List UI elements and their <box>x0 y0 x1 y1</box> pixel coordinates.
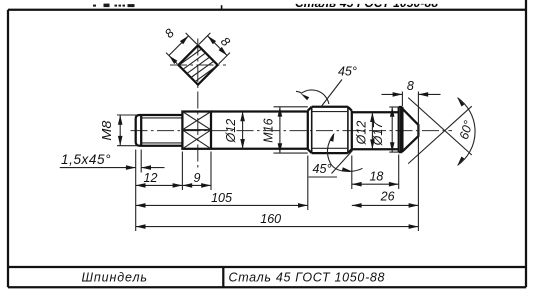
svg-text:Ø12: Ø12 <box>224 119 238 144</box>
detail square hatching <box>179 49 202 65</box>
svg-text:Ø12: Ø12 <box>355 121 369 146</box>
svg-text:45°: 45° <box>338 65 357 79</box>
svg-text:12: 12 <box>144 171 158 185</box>
collar diameter-17 outline <box>398 107 400 152</box>
cone construction lines to apex <box>408 98 472 155</box>
detail view square 8x8 (rotated 45deg) <box>178 45 217 84</box>
svg-text:М8: М8 <box>100 121 114 141</box>
dimension 60deg (cone angle) <box>458 98 476 166</box>
svg-text:Шпиндель: Шпиндель <box>82 271 148 285</box>
dimension 12 (thread length) <box>136 184 183 186</box>
M16 thread minor diameter lines <box>312 111 348 113</box>
detail-view horizontal centerline <box>170 64 226 66</box>
frame border <box>8 9 526 11</box>
M16 thread section outline <box>307 111 309 150</box>
dimension 26 <box>352 204 419 206</box>
svg-text:Сталь 45 ГОСТ 1050-88: Сталь 45 ГОСТ 1050-88 <box>229 271 385 285</box>
detail dimension 8 (upper-right edge) <box>199 33 210 44</box>
dimension diameter 17 (collar) <box>389 106 398 108</box>
svg-text:60°: 60° <box>457 119 476 141</box>
dimension 160 <box>136 226 419 228</box>
M8 threaded end outline <box>136 115 183 146</box>
svg-text:8: 8 <box>407 79 414 93</box>
dimension 18 <box>352 183 399 185</box>
dimension diameter 12 (main) <box>242 112 244 149</box>
svg-text:18: 18 <box>369 170 383 184</box>
svg-text:Ø17: Ø17 <box>371 121 385 147</box>
svg-text:Сталь 45 ГОСТ 1050-88: Сталь 45 ГОСТ 1050-88 <box>295 0 438 10</box>
dimension M8 <box>117 114 138 116</box>
dimension 9 (square length) <box>182 184 211 186</box>
svg-text:8: 8 <box>162 26 177 41</box>
dimension diameter 12 (neck) <box>371 112 373 149</box>
svg-text:160: 160 <box>260 212 281 226</box>
square-section vertical centerline <box>197 39 199 169</box>
svg-text:45°: 45° <box>313 162 332 176</box>
svg-text:26: 26 <box>380 190 395 204</box>
svg-text:М16: М16 <box>262 118 276 142</box>
dimension 8 (cone length) <box>401 92 403 107</box>
detail dimension 8 (upper-left edge) <box>166 53 177 64</box>
svg-text:8: 8 <box>218 34 233 49</box>
square section flat-marking cross (upper face) <box>182 112 211 130</box>
extension lines (length dims) <box>181 152 183 191</box>
title block <box>8 266 526 268</box>
square section flat-marking cross (lower face) <box>182 130 211 149</box>
60deg cone tip outline <box>402 109 418 152</box>
square section outline <box>182 112 211 149</box>
main axis centerline <box>131 130 453 132</box>
svg-text:1,5х45°: 1,5х45° <box>61 152 111 167</box>
dimension 105 <box>136 204 308 206</box>
svg-text:9: 9 <box>194 171 201 185</box>
M8 thread minor diameter lines <box>141 117 182 119</box>
dimension M16 <box>274 106 308 108</box>
neck diameter-12 outline <box>352 111 399 113</box>
diameter-12 cylinder outline <box>211 110 308 112</box>
svg-text:105: 105 <box>211 191 232 205</box>
